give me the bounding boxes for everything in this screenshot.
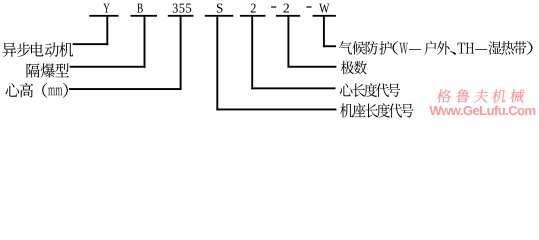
underline under 355 bbox=[168, 15, 194, 17]
wire: vertical drop from Y bbox=[106, 16, 108, 45]
underline under 2a bbox=[240, 15, 266, 17]
underline under S bbox=[205, 15, 234, 17]
label: asynchronous motor bbox=[2, 42, 73, 57]
watermark: www.GeLuFu.Com url bbox=[429, 103, 535, 118]
wire: horizontal connector left 3: to center-height label bbox=[69, 88, 182, 90]
wire: horizontal connector left 1: to async-motor label bbox=[73, 43, 109, 45]
wire: horizontal connector right 2: to poles label bbox=[287, 66, 336, 68]
label: flameproof type bbox=[27, 63, 69, 77]
wire: vertical drop from 355 bbox=[180, 16, 182, 90]
label: climate protection (W outdoor, TH damp-heat tropical) bbox=[339, 41, 532, 55]
wire: horizontal connector left 2: to flameproof label bbox=[70, 66, 146, 68]
wire: vertical drop from 2b bbox=[287, 16, 289, 67]
code row: model designation Y B 355 S 2 - 2 - W bbox=[103, 4, 329, 13]
wire: horizontal connector right 4: to frame-length label bbox=[216, 109, 336, 111]
hyphen separator 1 bbox=[271, 6, 276, 7]
watermark: GeLuFu Machinery chinese bbox=[436, 89, 525, 102]
wire: vertical drop from S bbox=[216, 16, 218, 110]
hyphen separator 2 bbox=[306, 6, 311, 7]
label: frame length code bbox=[340, 103, 413, 117]
label: core length code bbox=[340, 83, 400, 97]
label: number of poles bbox=[341, 61, 367, 75]
label: center height (mm) bbox=[5, 83, 67, 98]
underline under 2b bbox=[276, 15, 300, 17]
underline under Y bbox=[89, 15, 118, 17]
wire: horizontal connector right 3: to core-length label bbox=[251, 87, 335, 89]
wire: vertical drop from 2a bbox=[251, 16, 253, 89]
wire: vertical drop from W bbox=[323, 16, 325, 47]
wire: vertical drop from B bbox=[144, 16, 146, 68]
wire: horizontal connector right 1: to climate label bbox=[323, 45, 336, 47]
underline under B bbox=[131, 15, 158, 17]
underline under W bbox=[313, 15, 336, 17]
